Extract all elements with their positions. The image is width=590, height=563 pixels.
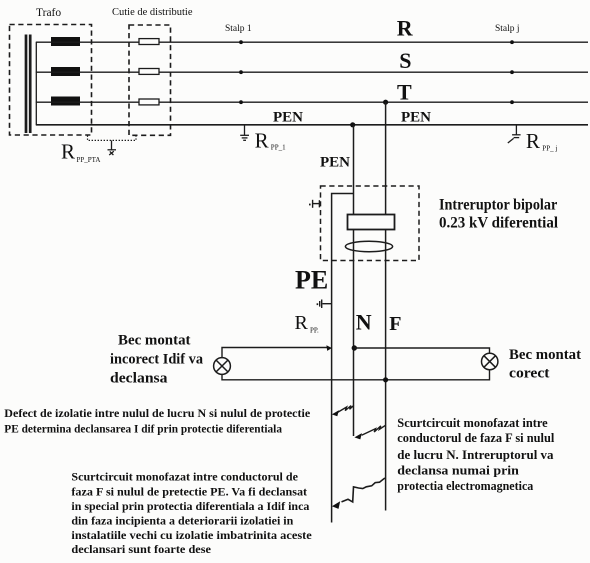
svg-text:Defect de izolatie intre nulul: Defect de izolatie intre nulul de lucru …: [4, 408, 310, 420]
ground R_PP_j earth symbol: [508, 125, 521, 143]
svg-text:din faza incipienta a deterior: din faza incipienta a deteriorarii izola…: [71, 515, 294, 527]
svg-text:conductorul de faza F si nulul: conductorul de faza F si nulul: [397, 431, 555, 445]
svg-text:R: R: [397, 16, 414, 41]
svg-text:Bec montat: Bec montat: [509, 347, 581, 363]
svg-text:Cutie de distributie: Cutie de distributie: [112, 7, 193, 18]
svg-text:PEN: PEN: [401, 110, 431, 126]
transformer winding bar 1: [25, 35, 28, 134]
svg-text:R: R: [255, 129, 269, 153]
svg-text:R: R: [526, 129, 540, 153]
svg-text:declansa: declansa: [110, 371, 168, 387]
label Bec montat corect: [509, 347, 581, 382]
wire phase S: [36, 71, 588, 73]
svg-text:Trafo: Trafo: [36, 7, 61, 19]
wire right lamp top to N: [354, 348, 489, 354]
svg-text:PP_ j: PP_ j: [542, 144, 557, 152]
svg-text:S: S: [399, 48, 411, 73]
fuse F2 phase S: [139, 69, 159, 75]
transformer phase coil T (black rectangle): [51, 97, 80, 106]
svg-text:Bec montat: Bec montat: [118, 332, 191, 348]
svg-text:R: R: [61, 140, 75, 164]
breaker U1 body: [348, 215, 395, 230]
svg-text:de lucru N. Intreruptorul va: de lucru N. Intreruptorul va: [397, 448, 554, 462]
svg-text:declansa numai prin: declansa numai prin: [397, 464, 519, 478]
node pole-1 tap on R: [239, 40, 243, 44]
lamp correctly wired (right) circle: [482, 353, 498, 369]
distribution box Cutie de distributie (dashed box): [129, 25, 171, 135]
dotted earthing link from Trafo and box to R_PP_PTA: [88, 136, 137, 141]
node pole-1 tap on T: [239, 100, 243, 104]
svg-text:declansari sunt foarte dese: declansari sunt foarte dese: [71, 544, 211, 556]
node pole-1 tap on S: [239, 70, 243, 74]
wire left lamp top to PE: [222, 348, 328, 358]
svg-text:PEN: PEN: [273, 110, 303, 126]
svg-text:N: N: [356, 310, 372, 335]
ground R_PP earth symbol on PE: [317, 300, 332, 309]
svg-text:PE determina declansarea I dif: PE determina declansarea I dif prin prot…: [4, 424, 282, 436]
svg-text:0.23 kV diferential: 0.23 kV diferential: [439, 215, 559, 232]
node pole-j tap on R: [510, 40, 514, 44]
wire shared bottom connection to F: [222, 370, 490, 380]
label Bec montat incorect Idif va declansa: [110, 332, 204, 386]
wire F conductor (vertical): [385, 102, 387, 510]
wire N conductor (vertical): [353, 125, 355, 436]
wire phase T: [36, 101, 588, 103]
wire phase R: [36, 41, 588, 43]
breaker U1 dashed enclosure: [321, 186, 420, 261]
node pole-j tap on S: [510, 70, 514, 74]
svg-text:corect: corect: [509, 366, 550, 382]
ground R_PP_1 earth symbol: [240, 125, 249, 141]
fuse F3 phase T: [139, 99, 159, 105]
fault bolt 1: N to PE insulation defect: [338, 405, 354, 412]
svg-text:F: F: [389, 313, 401, 335]
svg-text:Scurtcircuit monofazat intre c: Scurtcircuit monofazat intre conductorul…: [71, 472, 298, 484]
svg-text:faza F si nulul de pretectie P: faza F si nulul de pretectie PE. Va fi d…: [71, 487, 307, 499]
arrowhead at PE tap: [326, 345, 332, 351]
svg-text:PEN: PEN: [320, 154, 350, 170]
svg-text:Intreruptor bipolar: Intreruptor bipolar: [439, 197, 557, 214]
node F tap on bottom wire: [383, 377, 388, 382]
svg-text:Stalp j: Stalp j: [495, 24, 520, 34]
wire PE branch from N: [332, 194, 354, 523]
fault bolt 2: F to N short: [362, 425, 386, 435]
svg-text:incorect Idif va: incorect Idif va: [110, 352, 204, 368]
svg-text:PP_PTA: PP_PTA: [77, 156, 101, 164]
ground R_PP_PTA earth symbol: [108, 140, 117, 155]
transformer phase coil R (black rectangle): [51, 37, 80, 46]
node junction PEN to N conductor: [350, 122, 355, 127]
note: scurtcircuit F-PE text: [71, 472, 311, 556]
svg-text:R: R: [295, 312, 309, 334]
svg-text:instalatiile vechi cu izolatie: instalatiile vechi cu izolatie imbatrini…: [71, 530, 311, 542]
differential toroid: [345, 241, 392, 251]
svg-text:T: T: [397, 79, 412, 104]
node N tap for correct lamp: [352, 345, 357, 350]
node pole-j tap on T: [510, 100, 514, 104]
note: defect de izolatie text: [4, 408, 310, 436]
fault bolt 3: F to PE short: [342, 478, 385, 502]
note: scurtcircuit F-N text: [397, 416, 555, 493]
svg-text:Scurtcircuit monofazat intre: Scurtcircuit monofazat intre: [397, 416, 548, 430]
transformer secondary bus (vertical connector): [35, 42, 37, 125]
svg-text:PE: PE: [295, 266, 328, 295]
svg-text:in special prin protectia dife: in special prin protectia diferentiala a…: [71, 501, 309, 513]
lamp incorrectly wired X: [216, 360, 228, 372]
transformer phase coil S (black rectangle): [51, 67, 80, 76]
lamp correctly wired X: [484, 356, 496, 368]
wire PEN conductor: [36, 124, 588, 126]
svg-text:Stalp 1: Stalp 1: [225, 24, 252, 34]
transformer winding bar 2: [29, 35, 32, 134]
transformer Trafo enclosure (dashed box): [10, 25, 92, 136]
node junction T to F conductor: [383, 100, 388, 105]
fuse F1 phase R: [139, 39, 159, 45]
earth symbol on breaker enclosure: [309, 200, 320, 208]
svg-text:protectia electromagnetica: protectia electromagnetica: [397, 479, 534, 493]
svg-text:PP_1: PP_1: [271, 143, 286, 151]
svg-text:PP.: PP.: [310, 327, 319, 335]
lamp incorrectly wired (left) circle: [214, 358, 231, 375]
